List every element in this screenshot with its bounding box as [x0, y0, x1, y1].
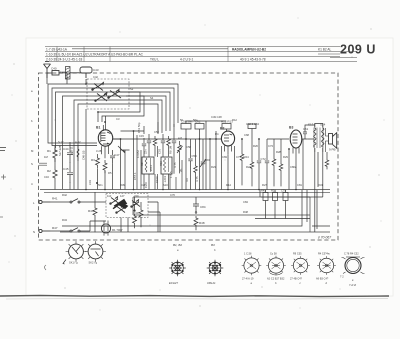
svg-text:C69: C69: [222, 155, 227, 159]
mains switch contact lower: [50, 228, 90, 232]
dial lamp ring e: [342, 257, 365, 274]
socket diagram c: [291, 256, 310, 275]
resistor R49 symbol left of dial frame: [133, 214, 137, 228]
svg-text:R1 7007: R1 7007: [112, 228, 123, 232]
page bottom edge shadow: [0, 295, 389, 296]
wire loop 4: [63, 96, 167, 152]
svg-text:4·2 U 9·1: 4·2 U 9·1: [180, 58, 194, 62]
antenna A: [44, 62, 51, 79]
svg-text:S17·32B: S17·32B: [58, 145, 62, 156]
trimmer C60: [200, 139, 206, 190]
svg-text:7·2: 7·2: [340, 276, 344, 279]
svg-text:C42: C42: [93, 75, 98, 79]
svg-text:C100: C100: [155, 176, 159, 183]
svg-text:9 PB: 9 PB: [329, 148, 336, 152]
middle labels: [133, 122, 199, 188]
svg-text:S14: S14: [320, 123, 326, 127]
svg-text:C.?8 R4·C52: C.?8 R4·C52: [344, 253, 359, 256]
svg-text:R3: R3: [91, 158, 95, 162]
svg-text:127: 127: [120, 194, 125, 198]
resistor R11: [194, 139, 198, 189]
wafer switch SK1 rear view: [63, 241, 86, 264]
svg-text:R41: R41: [52, 197, 58, 201]
resistor R7: [153, 136, 157, 156]
svg-text:R24: R24: [246, 165, 251, 169]
svg-text:R47: R47: [52, 226, 58, 230]
svg-text:C79: C79: [281, 189, 286, 193]
tube base diagram ECH4: [169, 260, 186, 277]
svg-text:C76: C76: [170, 193, 175, 197]
mains switch contact upper: [50, 199, 95, 203]
bottom-left bus stubs: [40, 189, 46, 191]
barretter lamp circle: [101, 221, 110, 236]
switch contact K1: [92, 82, 104, 90]
svg-text:R8 1M: R8 1M: [169, 145, 173, 154]
svg-text:C2l: C2l: [141, 183, 145, 187]
svg-text:2·10·39 24·3·U 2·45·1·18: 2·10·39 24·3·U 2·45·1·18: [46, 58, 83, 62]
capacitor C53: [147, 134, 151, 157]
svg-text:C47: C47: [114, 153, 120, 157]
svg-text:S13: S13: [308, 123, 314, 127]
svg-text:R2: R2: [47, 169, 51, 173]
svg-text:Cu 58: Cu 58: [270, 253, 277, 256]
hand-drawn arrow annotation: [113, 200, 128, 209]
svg-text:R42: R42: [62, 193, 67, 197]
socket diagram b: [266, 256, 286, 276]
speaker: [326, 128, 337, 152]
svg-text:31B·11: 31B·11: [70, 146, 74, 155]
svg-text:S4: S4: [150, 96, 154, 100]
svg-text:C55: C55: [158, 148, 162, 154]
svg-text:C46·1l5: C46·1l5: [82, 150, 86, 160]
svg-text:C4·B2: C4·B2: [136, 150, 140, 158]
B2 tube: [221, 131, 234, 155]
svg-text:R27: R27: [262, 183, 267, 187]
svg-text:S: S: [31, 162, 33, 166]
svg-text:S.17: S.17: [58, 140, 64, 144]
svg-text:R24: R24: [244, 155, 250, 159]
left column: capacitor C44: [67, 146, 73, 163]
svg-text:A2·C2 B27 B32: A2·C2 B27 B32: [267, 278, 285, 281]
svg-text:C73: C73: [268, 144, 273, 148]
left border equals mark: [39, 163, 47, 165]
left column: coil S1: [77, 145, 79, 161]
svg-text:R4: R4: [215, 132, 219, 136]
voltage selector contact c: [131, 200, 140, 208]
IF transformer can S9/S10: [161, 157, 172, 174]
resistor R3 under B1: [96, 155, 100, 168]
svg-text:4·75: 4·75: [173, 162, 177, 168]
heater bus: [40, 190, 330, 233]
wire loop 3: [56, 92, 171, 148]
extra mid verticals: [141, 146, 182, 190]
components under B2: resistor R24: [240, 139, 244, 185]
wires under B2: [222, 139, 315, 190]
svg-text:7·2l·4l: 7·2l·4l: [349, 284, 356, 287]
svg-text:3·28: 3·28: [96, 149, 102, 153]
capacitor C40: [47, 71, 67, 79]
svg-text:C58: C58: [186, 145, 191, 149]
svg-text:R43: R43: [62, 218, 67, 222]
svg-text:C84: C84: [200, 205, 206, 209]
svg-text:C68: C68: [244, 133, 249, 137]
mains terminal P1: [39, 200, 50, 203]
svg-text:R44: R44: [88, 209, 94, 213]
B1 tube octode: [98, 116, 120, 158]
svg-text:R31: R31: [318, 183, 323, 187]
tube base diagram EBL1: [207, 260, 224, 277]
svg-text:R39: R39: [120, 183, 125, 187]
capacitor C79: [283, 190, 288, 219]
svg-text:R48: R48: [199, 221, 205, 225]
svg-text:1·4·5: 1·4·5: [169, 171, 173, 178]
resistor R45: [263, 190, 268, 219]
svg-text:C16: C16: [44, 175, 49, 179]
mains terminal P2: [39, 229, 50, 232]
capacitor C52: [142, 138, 146, 157]
wire loop 2: [52, 88, 174, 146]
wire loop inner b: [102, 96, 144, 122]
svg-text:R48: R48: [243, 210, 248, 214]
resistor R9 arrow: [177, 141, 183, 173]
svg-text:R5: R5: [108, 171, 112, 175]
resistor R48: [194, 216, 198, 230]
svg-text:4·0: 4·0: [185, 178, 189, 182]
resistor R8: [167, 136, 171, 156]
svg-text:R1: R1: [47, 149, 51, 153]
voltage adjust dashed box: [106, 194, 148, 218]
svg-text:R28: R28: [276, 150, 281, 154]
svg-text:RADIOLAMPEN·U2·B2: RADIOLAMPEN·U2·B2: [232, 48, 266, 52]
svg-text:C45: C45: [63, 167, 69, 171]
svg-text:TKU L: TKU L: [150, 58, 159, 62]
svg-text:SK2 l·g: SK2 l·g: [89, 261, 98, 265]
capacitor C62 block: [195, 124, 204, 191]
svg-text:C72: C72: [261, 157, 267, 161]
left edge scan artifacts: [0, 148, 46, 271]
svg-text:B3: B3: [211, 243, 215, 247]
middle small components grid (C/R group): [142, 122, 183, 190]
left column: capacitor C45: [67, 166, 73, 183]
svg-text:∂ 70·067: ∂ 70·067: [318, 236, 331, 240]
svg-text:R26: R26: [253, 144, 258, 148]
wire loop inner a: [98, 92, 140, 122]
svg-text:R21: R21: [271, 189, 276, 193]
svg-text:·L201: ·L201: [163, 175, 167, 183]
chassis dashed border: [39, 73, 339, 240]
B3 output tube: [290, 130, 308, 156]
resistor R28: [272, 139, 276, 186]
svg-text:110: 110: [107, 194, 112, 198]
capacitor C56: [172, 134, 176, 174]
wire loop 5: [74, 100, 162, 133]
svg-text:ECH4?: ECH4?: [169, 281, 178, 285]
svg-text:C41: C41: [60, 70, 65, 74]
band switch SK dashed box: [87, 79, 129, 109]
svg-text:B1: B1: [96, 126, 100, 130]
svg-text:1 C.58: 1 C.58: [244, 253, 252, 256]
IF transformer can S7/S8: [142, 157, 154, 174]
svg-text:R4 C5?4w: R4 C5?4w: [318, 253, 330, 256]
svg-text:50n: 50n: [98, 183, 103, 187]
switch contact K2: [95, 93, 107, 102]
left border tick labels: [31, 89, 35, 234]
svg-text:209 U: 209 U: [340, 43, 376, 57]
svg-text:C80a: C80a: [290, 165, 297, 169]
left column wires down: [55, 122, 86, 190]
nested loop wires (oscillator/aerial coils wiring): [48, 79, 178, 158]
wire drops: [74, 128, 78, 158]
svg-text:C15: C15: [139, 134, 144, 138]
svg-text:A9·B3 C4?: A9·B3 C4?: [316, 278, 329, 281]
components under B2: resistor R25: [250, 139, 254, 186]
svg-text:UBL21: UBL21: [207, 281, 216, 285]
svg-text:56a: 56a: [193, 118, 198, 122]
capacitor C59: [188, 139, 192, 190]
svg-text:C44: C44: [63, 147, 69, 151]
wire loop inner c: [85, 79, 87, 122]
wires mains area: [90, 202, 160, 232]
wires B1 to B2 row: [113, 121, 226, 190]
resistor R4 under B1: [103, 160, 107, 173]
socket diagram d: [317, 256, 336, 275]
svg-text:C53: C53: [154, 130, 159, 134]
svg-text:1·10·39 IL·5U·1R B4·AZ1·U2: 1·10·39 IL·5U·1R B4·AZ1·U2 ULTRAKORT A U…: [46, 53, 144, 57]
capacitor C55: [161, 134, 165, 157]
svg-text:22n: 22n: [144, 149, 148, 154]
svg-text:·2011: ·2011: [149, 165, 153, 172]
wire loop 1: [48, 84, 178, 143]
output transformer S13/S14: [314, 124, 324, 153]
left column: resistor R1: [53, 146, 57, 162]
cap C85 symbol left of dial frame: [133, 197, 137, 211]
svg-text:SK1 l·g: SK1 l·g: [69, 261, 78, 265]
svg-text:R29: R29: [283, 155, 288, 159]
switch contact K3: [108, 90, 121, 99]
svg-text:C71: C71: [236, 155, 241, 159]
svg-text:C3: C3: [116, 117, 120, 121]
resistor R46 vertical right: [325, 152, 329, 169]
svg-text:R14: R14: [226, 183, 231, 187]
svg-text:C49 C48: C49 C48: [211, 115, 222, 119]
svg-text:27·4l A·19: 27·4l A·19: [242, 278, 254, 281]
left column rotated labels: [58, 145, 92, 185]
bus junction dots: [85, 182, 297, 190]
svg-text:R45: R45: [261, 189, 266, 193]
capacitor C58 block: [181, 124, 191, 191]
voltage selector contact b: [116, 206, 125, 214]
junction dots row: [85, 83, 290, 150]
metal can C43: [70, 67, 92, 78]
svg-text:C81: C81: [297, 183, 302, 187]
svg-text:N: N: [33, 230, 35, 234]
svg-text:C19: C19: [88, 180, 92, 185]
svg-text:B3: B3: [289, 126, 293, 130]
trimmer C46: [118, 146, 130, 153]
svg-text:S10: S10: [159, 161, 163, 166]
wires under B1: [98, 139, 126, 190]
resistor R29: [279, 139, 283, 186]
capacitor C84: [193, 197, 199, 213]
wire loop 6: [78, 104, 158, 133]
svg-text:A·12: A·12: [75, 140, 81, 144]
capacitor C63 block: [222, 124, 231, 132]
svg-text:27 4B·C4?: 27 4B·C4?: [290, 278, 303, 281]
wafer switch SK2 rear view: [85, 241, 106, 262]
ballast resistor R40: [139, 202, 143, 227]
capacitor C62b block: [248, 124, 256, 139]
svg-text:20·: 20·: [179, 168, 183, 172]
svg-text:C40: C40: [51, 67, 57, 71]
scattered value labels: [44, 70, 323, 222]
svg-text:K1 B2 AL: K1 B2 AL: [318, 48, 332, 52]
svg-text:C60: C60: [205, 158, 211, 162]
resistor R44 column: [93, 192, 97, 232]
svg-text:S8: S8: [140, 162, 144, 166]
wires mid down: [144, 122, 174, 190]
svg-text:50·: 50·: [180, 118, 184, 122]
svg-text:S10: S10: [163, 183, 168, 187]
svg-text:4·8: 4·8: [178, 136, 182, 140]
wire antenna feed down: [47, 73, 67, 84]
header table: [45, 47, 357, 62]
svg-text:C43: C43: [93, 68, 99, 72]
svg-text:C61: C61: [303, 127, 309, 131]
capacitor C72: [257, 139, 261, 190]
page sheet: [26, 38, 393, 296]
svg-text:C62 3 C63: C62 3 C63: [246, 122, 259, 126]
svg-text:C84: C84: [243, 200, 248, 204]
capacitor C47 under B1: [110, 150, 115, 164]
filter C41 hatched: [66, 67, 71, 80]
svg-text:R40: R40: [133, 211, 139, 215]
svg-text:R12: R12: [232, 118, 237, 122]
capacitor C73: [265, 139, 289, 190]
resistor R21: [273, 190, 278, 219]
capacitor C61: [303, 125, 315, 139]
voltage selector contact a: [110, 197, 119, 205]
svg-text:R9 C55: R9 C55: [293, 253, 302, 256]
svg-text:S2: S2: [130, 87, 134, 91]
right nested wires to bus: [62, 152, 330, 232]
socket diagram a: [242, 256, 262, 276]
svg-text:40·9 1 45·43·9·78: 40·9 1 45·43·9·78: [240, 58, 266, 62]
left column: resistor R2: [53, 166, 57, 182]
svg-text:C59: C59: [192, 154, 198, 158]
svg-text:B1, B2: B1, B2: [173, 243, 182, 247]
svg-text:R23: R23: [211, 165, 216, 169]
